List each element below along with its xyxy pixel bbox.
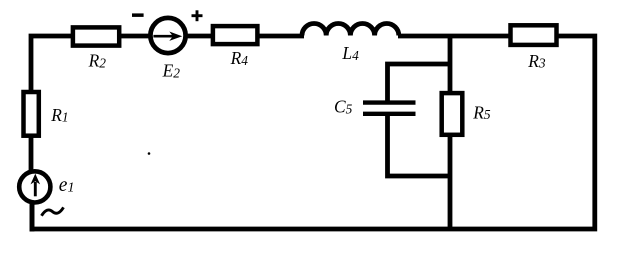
svg-text:R5: R5 (472, 102, 491, 122)
svg-text:C5: C5 (334, 97, 353, 117)
svg-text:e1: e1 (59, 175, 75, 196)
svg-text:R2: R2 (88, 51, 107, 71)
svg-text:L4: L4 (341, 43, 359, 63)
svg-text:R4: R4 (230, 48, 249, 68)
svg-text:R1: R1 (50, 105, 68, 125)
svg-text:R3: R3 (527, 51, 546, 71)
svg-text:E2: E2 (162, 61, 181, 81)
